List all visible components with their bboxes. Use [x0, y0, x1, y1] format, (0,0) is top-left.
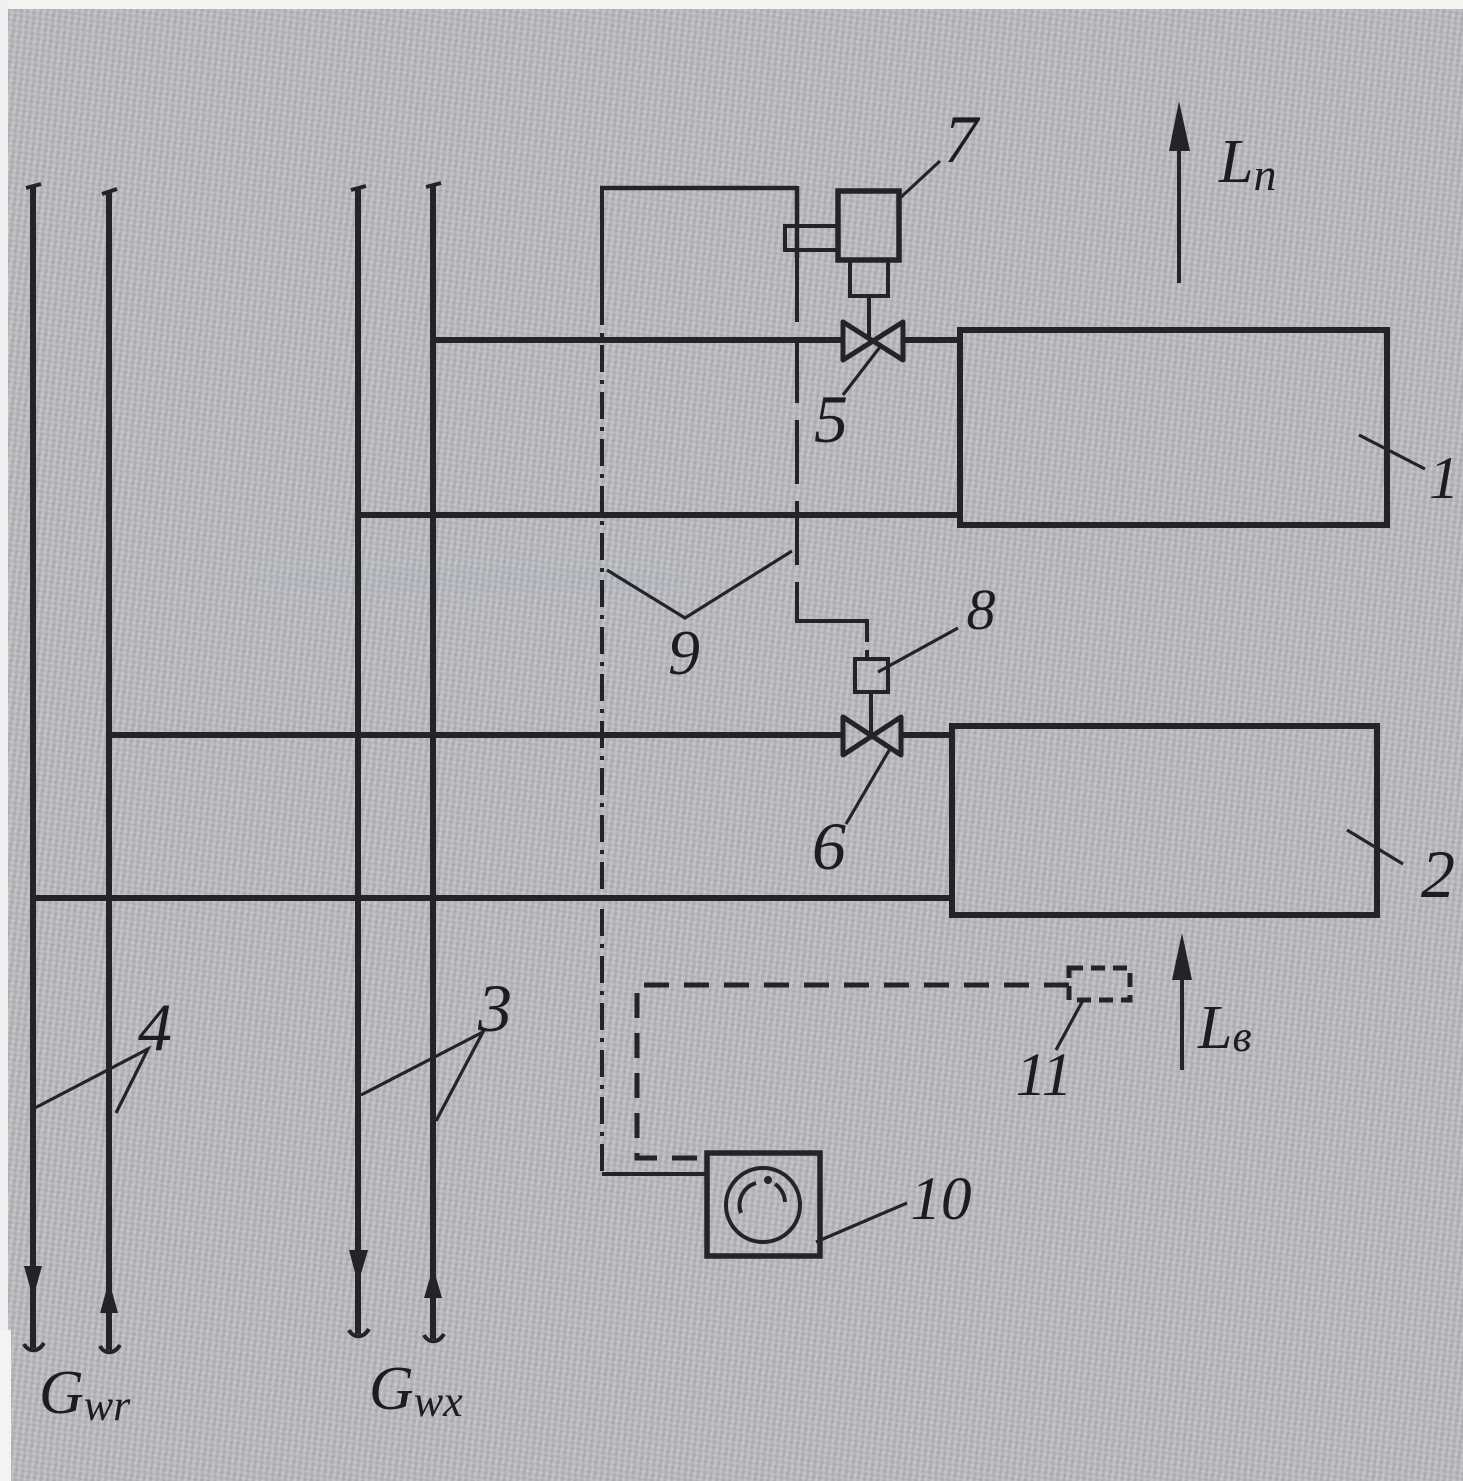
- pipe: top supply to valve 5: [433, 337, 843, 343]
- riser pipe G_wx supply (line 3 left): [355, 188, 361, 1334]
- svg-text:11: 11: [1016, 1042, 1072, 1109]
- svg-text:Lв: Lв: [1197, 994, 1252, 1062]
- air heater 2: [952, 726, 1377, 915]
- wire: line 9 into controller 10: [602, 1172, 707, 1176]
- leader 5: [843, 347, 880, 395]
- riser top tick marks: [26, 183, 441, 194]
- positioner box 8: [855, 659, 888, 692]
- wire: control drop to actuator flange: [795, 186, 800, 258]
- svg-text:4: 4: [138, 989, 172, 1065]
- air temperature sensor 11 (dashed box): [1069, 968, 1130, 1000]
- leader 3 (V-shape): [361, 1032, 483, 1121]
- actuator 7 body: [838, 191, 899, 260]
- pipe: valve 6 to heater 2: [900, 732, 952, 738]
- scan smudge: [250, 567, 690, 593]
- air heater 1: [960, 330, 1387, 525]
- riser end hooks: [24, 1329, 444, 1352]
- valve 6: [843, 717, 901, 755]
- leader lines: [31, 161, 1425, 1242]
- pipe: valve 5 to heater 1: [903, 337, 960, 343]
- control line actuator to box 8 (dashed): [797, 258, 867, 659]
- flow arrowhead up on riser 4: [424, 1267, 442, 1298]
- controller 10 box: [707, 1153, 820, 1256]
- white scan edge top: [0, 0, 1463, 9]
- riser pipe G_wx return (line 3 right): [430, 185, 436, 1339]
- controller 10 inner arc: [740, 1183, 756, 1213]
- svg-text:Gwr: Gwr: [39, 1359, 131, 1430]
- flow arrowhead down on riser 3: [349, 1250, 368, 1284]
- leader 7: [899, 161, 940, 199]
- leader 10: [816, 1203, 907, 1242]
- stem box 8 to valve 6: [869, 692, 873, 733]
- svg-text:6: 6: [812, 808, 846, 884]
- air flow arrow L_v: [1180, 975, 1184, 1070]
- svg-text:1: 1: [1429, 445, 1459, 511]
- svg-text:3: 3: [477, 970, 512, 1046]
- leader 8: [878, 628, 958, 672]
- sensor line (dashed) to controller: [637, 985, 1069, 1158]
- pipe: heater 1 return: [356, 512, 960, 518]
- leader 4 (V-shape): [31, 1049, 148, 1113]
- pipe: heater 2 return: [33, 895, 952, 901]
- controller 10 dot: [764, 1176, 772, 1184]
- white scan edge left: [0, 0, 8, 1481]
- actuator stem to valve 5: [867, 296, 871, 338]
- valve 5: [843, 322, 903, 360]
- svg-text:5: 5: [814, 381, 848, 457]
- svg-text:7: 7: [944, 101, 981, 177]
- leader 2: [1347, 830, 1403, 864]
- riser pipe G_wr supply (line 4 left): [30, 186, 36, 1348]
- flow arrowhead up on riser 2: [100, 1281, 118, 1313]
- svg-text:8: 8: [967, 577, 996, 642]
- svg-text:Lп: Lп: [1218, 128, 1276, 200]
- leader 9 (V-shape): [607, 551, 792, 618]
- air flow arrow L_p: [1177, 145, 1181, 283]
- control impulse line 9 (dash-dot): [600, 188, 604, 298]
- leader 11: [1056, 1002, 1082, 1050]
- leader 6: [846, 747, 891, 824]
- svg-text:10: 10: [911, 1166, 972, 1233]
- leader 1: [1359, 435, 1425, 469]
- wire: top horizontal control line: [600, 186, 797, 191]
- svg-text:Gwx: Gwx: [369, 1355, 463, 1426]
- riser pipe G_wr return (line 4 right): [106, 191, 112, 1350]
- pipe: supply to valve 6: [109, 732, 843, 738]
- flow arrowhead down on riser 1: [24, 1266, 42, 1298]
- svg-text:2: 2: [1421, 836, 1455, 912]
- svg-text:9: 9: [668, 617, 700, 688]
- actuator 7 stem block: [850, 260, 888, 296]
- actuator 7 flange: [785, 226, 838, 250]
- controller 10 dial circle: [726, 1168, 800, 1242]
